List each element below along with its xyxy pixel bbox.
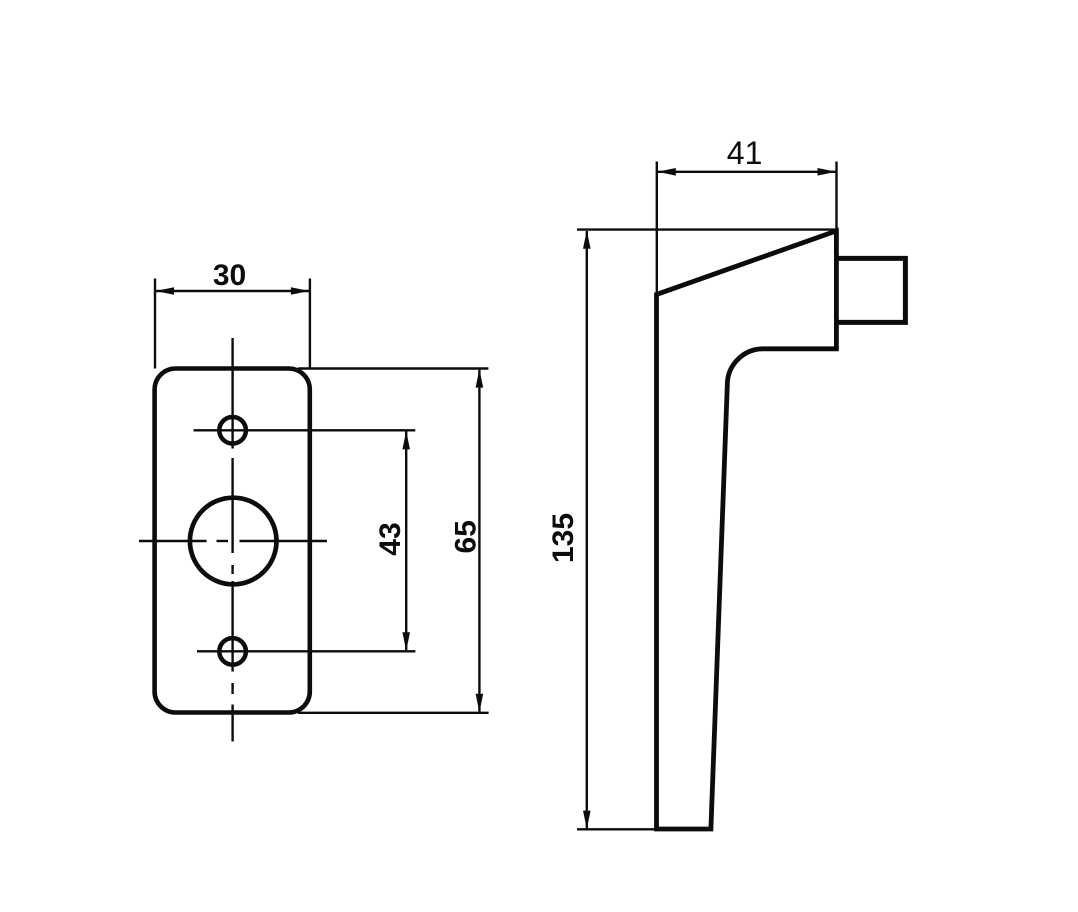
spindle knob rectangle <box>837 258 905 322</box>
arrow dim135 bottom <box>583 811 591 829</box>
arrowheads right view <box>583 168 836 829</box>
arrow dim135 top <box>583 230 591 248</box>
arrow dim43 top <box>402 431 410 449</box>
extension line bottom for 135 <box>577 828 656 830</box>
horizontal centerline of plate <box>139 540 327 542</box>
arrow dim41 right <box>818 168 836 176</box>
svg-text:43: 43 <box>374 522 407 555</box>
extension lines for dim 65 <box>298 367 488 369</box>
extension line top for 135 (to handle tip) <box>577 228 837 230</box>
svg-text:41: 41 <box>727 135 763 171</box>
top screw hole <box>219 417 246 444</box>
dimension line 135 <box>586 231 588 829</box>
bottom screw hole <box>219 638 246 665</box>
dimension line 41 <box>657 171 837 173</box>
svg-text:135: 135 <box>547 513 580 563</box>
dimension line 65 <box>478 370 480 712</box>
svg-text:30: 30 <box>213 259 246 292</box>
extension lines for dim 30 <box>154 279 156 369</box>
plate outline (front view rounded rectangle) <box>155 369 310 713</box>
arrow dim43 bottom <box>402 632 410 650</box>
dimension line 43 <box>405 432 407 651</box>
extension lines for dim 41 <box>656 162 658 295</box>
arrow dim65 bottom <box>476 694 484 712</box>
bottom hole centerline / extension for 43 <box>197 650 415 652</box>
arrow dim30 right <box>291 287 309 295</box>
spindle bore (large circle) <box>190 498 277 585</box>
dimension line 30 <box>155 290 310 292</box>
vertical centerline of plate <box>231 338 233 742</box>
arrow dim65 top <box>476 369 484 387</box>
arrowheads left view <box>156 287 484 712</box>
arrow dim30 left <box>156 287 174 295</box>
handle outline (side view) <box>657 231 837 829</box>
svg-text:65: 65 <box>449 520 482 553</box>
top hole centerline / extension for 43 <box>194 429 416 431</box>
arrow dim41 left <box>657 168 675 176</box>
